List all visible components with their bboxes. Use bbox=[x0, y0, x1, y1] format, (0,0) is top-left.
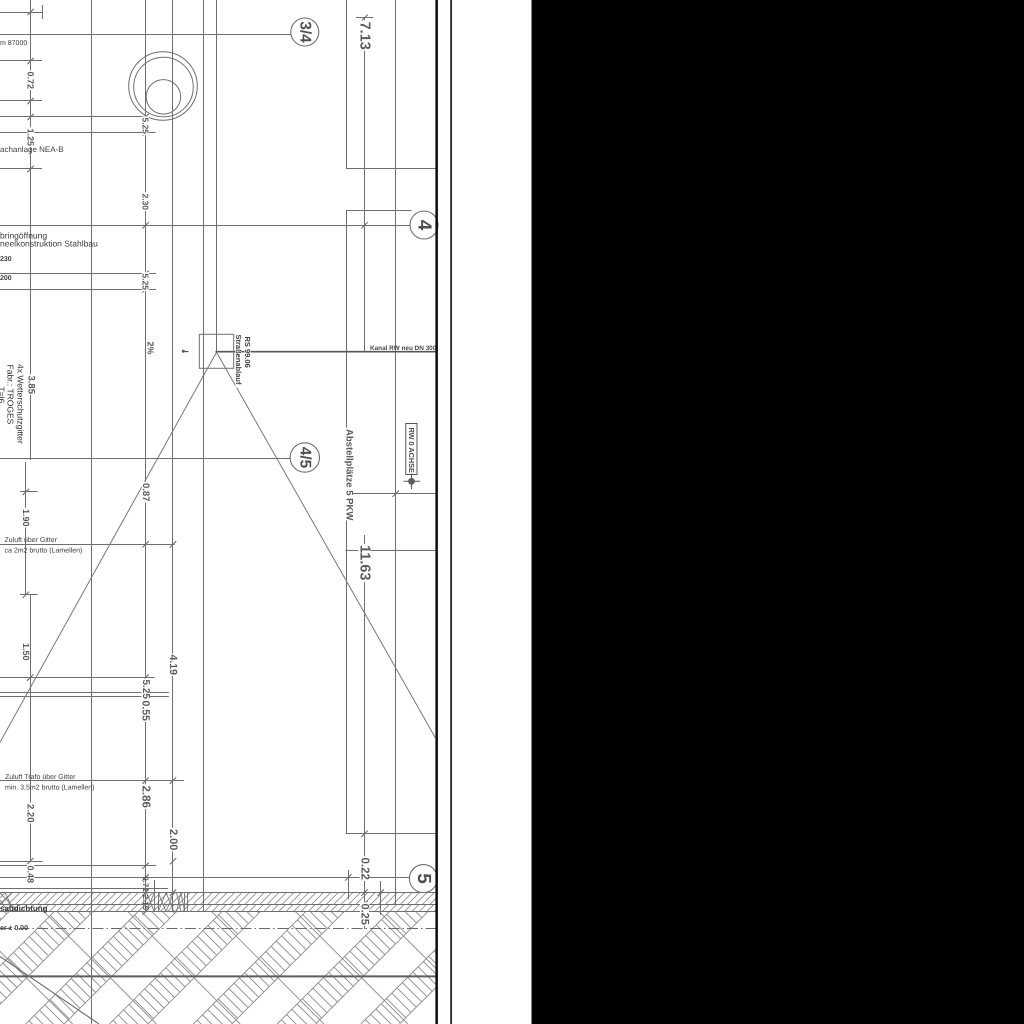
rect bottom y=833.8 bbox=[346, 833, 437, 835]
dim 0.72 bbox=[27, 70, 35, 90]
svg-text:3.85: 3.85 bbox=[25, 376, 36, 395]
left chain upper bbox=[30, 0, 32, 460]
grid bubble 3/4 bbox=[291, 18, 319, 46]
survey target symbol bbox=[404, 480, 421, 482]
dim 2.30 bbox=[142, 192, 149, 211]
grid line x=204 bbox=[203, 0, 205, 912]
line y=677.6 bbox=[0, 677, 155, 679]
tick line y=169 bbox=[0, 168, 42, 170]
svg-text:0.25: 0.25 bbox=[359, 904, 371, 925]
dim 2.86 bbox=[141, 784, 151, 809]
rect top y=550 bbox=[346, 550, 437, 552]
svg-text:0.55: 0.55 bbox=[140, 701, 152, 722]
line y=888.1 bbox=[0, 888, 168, 890]
RW 0 ACHSE box bbox=[406, 424, 417, 475]
bottom-left diagonal line bbox=[0, 957, 99, 1024]
svg-text:RS 99.06: RS 99.06 bbox=[243, 337, 252, 368]
chain ticks bbox=[27, 9, 33, 15]
upper hatched slab strip band 1 bbox=[0, 893, 442, 905]
tick line y=861.2 bbox=[0, 861, 43, 863]
dim 2 percent bbox=[147, 340, 155, 352]
Kanal RW line bbox=[216, 351, 437, 353]
svg-text:5.25: 5.25 bbox=[141, 274, 151, 291]
line y=117 bbox=[0, 116, 146, 118]
svg-text:Kanal RW neu DN 300: Kanal RW neu DN 300 bbox=[370, 345, 437, 352]
svg-text:min. 3,5m2 brutto (Lamellen): min. 3,5m2 brutto (Lamellen) bbox=[5, 784, 94, 792]
svg-text:4: 4 bbox=[414, 220, 435, 231]
tick line y=594.8 bbox=[20, 594, 38, 596]
svg-text:2%: 2% bbox=[146, 342, 156, 355]
svg-text:2.15: 2.15 bbox=[141, 895, 150, 911]
insulation bracing detail in strip bbox=[154, 893, 156, 912]
wall line x=346 lower bbox=[346, 211, 348, 834]
dim 1.50 bbox=[22, 642, 30, 662]
svg-text:5.25: 5.25 bbox=[140, 680, 151, 700]
tick vertical at 43,12 bbox=[42, 5, 44, 19]
svg-text:2.20: 2.20 bbox=[25, 804, 36, 823]
svg-text:230: 230 bbox=[0, 256, 12, 263]
svg-text:5.25: 5.25 bbox=[141, 118, 151, 135]
svg-text:200: 200 bbox=[0, 275, 12, 282]
label Abstellplaetze bbox=[345, 428, 353, 521]
line y=780.6 bbox=[0, 780, 184, 782]
dim 1.90 bbox=[22, 508, 30, 528]
dim 0.55 bbox=[141, 699, 150, 722]
lower ground cross-hatch bbox=[0, 883, 596, 1024]
svg-text:Straßenablauf: Straßenablauf bbox=[234, 335, 243, 386]
svg-text:1.25: 1.25 bbox=[26, 129, 36, 147]
left dense detail in strip bbox=[0, 893, 12, 904]
grid line x=92 bbox=[91, 0, 93, 1024]
V diagonal left bbox=[0, 352, 217, 742]
wall top right y=168.2 bbox=[346, 168, 437, 170]
grid bubble 5 bbox=[409, 865, 437, 893]
dim 0.48 bbox=[27, 864, 35, 884]
svg-text:sabdichtung: sabdichtung bbox=[0, 904, 48, 913]
top dim tick line x=364.5 bbox=[356, 17, 373, 19]
svg-text:0.87: 0.87 bbox=[140, 483, 151, 502]
grid line x=173 bbox=[172, 0, 174, 912]
svg-text:2.30: 2.30 bbox=[141, 194, 151, 211]
grid line x=216 bbox=[216, 0, 218, 352]
grid bubble 4 bbox=[410, 211, 438, 239]
dim 0.87 bbox=[142, 482, 150, 503]
tick line y=101 bbox=[0, 100, 42, 102]
svg-text:11.63: 11.63 bbox=[357, 545, 373, 581]
svg-text:0.72: 0.72 bbox=[26, 72, 36, 90]
dim 2.20 bbox=[26, 803, 34, 824]
tick line y=12 bbox=[0, 12, 42, 14]
sheet border thick bbox=[435, 0, 438, 1024]
line y=289.3 bbox=[0, 289, 156, 291]
dash-dot level line bbox=[0, 928, 437, 930]
viewer black background right of sheet bbox=[532, 0, 1024, 1024]
svg-text:7.13: 7.13 bbox=[357, 22, 373, 50]
strip mid edge bbox=[0, 904, 437, 906]
svg-text:5: 5 bbox=[413, 873, 434, 884]
line y=865.7 bbox=[0, 865, 156, 867]
strip bottom edge bbox=[0, 911, 437, 913]
tick line y=491.9 bbox=[20, 491, 38, 493]
svg-text:RW 0 ACHSE: RW 0 ACHSE bbox=[407, 428, 416, 474]
svg-text:2.86: 2.86 bbox=[140, 786, 152, 808]
line y=493.7 bbox=[346, 493, 437, 495]
wall line x=346 upper bbox=[346, 0, 348, 168]
dim 2.00 bbox=[168, 828, 177, 852]
line y=544.4 bbox=[0, 544, 175, 546]
svg-text:er ± 0.00: er ± 0.00 bbox=[0, 925, 28, 932]
tick line y=61 bbox=[0, 60, 42, 62]
grid bubble 4/5 bbox=[290, 443, 319, 472]
grid line x=396 bbox=[395, 0, 397, 904]
svg-text:0.71: 0.71 bbox=[141, 876, 150, 892]
Kanal slope tick bbox=[183, 351, 189, 353]
svg-text:4.19: 4.19 bbox=[167, 655, 179, 676]
dim 5.25 b bbox=[142, 272, 149, 291]
svg-text:0.22: 0.22 bbox=[359, 858, 371, 880]
sheet border thin bbox=[450, 0, 452, 1024]
sheet background bbox=[0, 0, 532, 1024]
svg-text:m 87000: m 87000 bbox=[0, 40, 27, 47]
long line y=877.4 to circle 5 bbox=[0, 877, 409, 879]
leader to circle 3/4 bbox=[0, 34, 291, 36]
line y=692.8 bbox=[0, 692, 169, 694]
svg-text:achanlage NEA-B: achanlage NEA-B bbox=[0, 145, 64, 154]
svg-text:T=l6: T=l6 bbox=[0, 387, 7, 404]
svg-text:4/5: 4/5 bbox=[296, 447, 313, 469]
strip top edge bbox=[0, 892, 437, 894]
short tick line x=348 bbox=[348, 870, 350, 899]
shaft circles bbox=[129, 52, 198, 121]
svg-text:3/4: 3/4 bbox=[296, 21, 313, 43]
Sinkkasten box bbox=[199, 334, 233, 368]
upper hatched slab strip band 2 bbox=[0, 904, 441, 911]
short tick line x=154 bbox=[154, 880, 156, 893]
dim 7.13 bbox=[358, 20, 370, 50]
dim 0.25 bbox=[360, 902, 369, 926]
svg-text:4x Wetterschutzgitter: 4x Wetterschutzgitter bbox=[16, 364, 26, 444]
line y=211 bbox=[346, 210, 412, 212]
dim 11.63 bbox=[358, 544, 370, 582]
svg-text:2.00: 2.00 bbox=[167, 829, 179, 850]
dim 5.25 c bbox=[141, 678, 149, 700]
svg-text:Zuluft Trafo über Gitter: Zuluft Trafo über Gitter bbox=[5, 773, 76, 781]
line y=273.9 bbox=[0, 273, 156, 275]
dim 5.25 a bbox=[142, 116, 149, 135]
label Strassenablauf bbox=[235, 333, 241, 387]
long line y=225.3 to circle 4 bbox=[0, 225, 410, 227]
label RS 99.06 bbox=[244, 335, 250, 367]
line y=459 to circle 4/5 bbox=[0, 458, 290, 460]
dim line x=364.5 lower bbox=[364, 535, 366, 929]
dim line x=364.5 upper bbox=[364, 18, 366, 352]
svg-text:Zuluft über Gitter: Zuluft über Gitter bbox=[5, 536, 58, 544]
left chain lower bbox=[30, 595, 32, 861]
left chain mid bbox=[25, 462, 27, 595]
svg-text:1.50: 1.50 bbox=[21, 643, 31, 661]
dim 0.22 bbox=[360, 856, 370, 881]
svg-text:0.48: 0.48 bbox=[26, 866, 36, 884]
svg-text:Abstellplätze 5 PKW: Abstellplätze 5 PKW bbox=[344, 429, 355, 520]
line y=696.3 bbox=[0, 696, 169, 698]
dim 4.19 bbox=[169, 653, 178, 676]
grid line x=146 bbox=[145, 0, 147, 912]
dark slab line bbox=[0, 975, 437, 977]
svg-text:neelkonstruktion Stahlbau: neelkonstruktion Stahlbau bbox=[0, 239, 98, 249]
svg-text:ca 2m2 brutto (Lamellen): ca 2m2 brutto (Lamellen) bbox=[5, 547, 83, 555]
svg-text:1.90: 1.90 bbox=[21, 509, 31, 527]
dim 3.85 bbox=[27, 374, 35, 395]
V diagonal right bbox=[217, 352, 436, 738]
line y=132.5 bbox=[0, 132, 156, 134]
short tick line x=381 bbox=[380, 881, 382, 915]
dim 1.25 bbox=[27, 127, 35, 147]
